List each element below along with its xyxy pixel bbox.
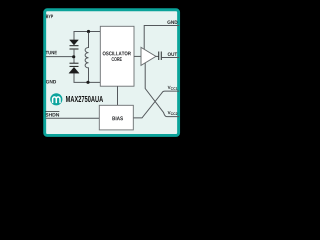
wire buffer to capacitor [156,55,159,57]
pin label BYP [46,15,53,18]
pin label OUT [168,52,177,55]
wire TUNE node to D2 [73,58,75,63]
pin label TUNE [46,51,57,54]
Maxim logo [50,93,62,105]
node dot bottom rail [86,81,89,84]
pin label SHDN with overbar [45,113,59,116]
varactor D1 cathode down [70,40,79,45]
pin label VCC1 [168,86,171,89]
coupling capacitor C1 [158,52,160,61]
inductor L1 [85,33,88,82]
pin label GND left [46,80,56,83]
wire bottom resonator rail [74,73,101,82]
wire D1 to TUNE node [73,49,75,56]
block BIAS [99,105,133,130]
wire BIAS to VCC1 through crossing [133,91,179,118]
wire capacitor to OUT pin [161,57,179,59]
node TUNE junction [72,55,75,58]
buffer amplifier [141,47,156,65]
pin label GND top right [167,20,177,23]
wire top resonator rail [74,32,101,40]
node dot top rail [87,30,90,33]
device outline MAX2750AUA block [45,10,179,136]
wire oscillator to buffer [134,55,142,57]
block OSCILLATOR CORE [100,26,134,86]
wire GND pin to buffer top [144,26,179,53]
part number MAX2750AUA [66,96,103,102]
varactor D2 cathode up [70,62,79,64]
wire TUNE pin to varactor node [46,56,73,58]
wire oscillator to bias [117,86,119,105]
pin label VCC2 [168,111,171,114]
wire VCC2 feed from buffer through crossing [145,61,179,117]
wire SHDN pin to BIAS block [46,117,100,119]
